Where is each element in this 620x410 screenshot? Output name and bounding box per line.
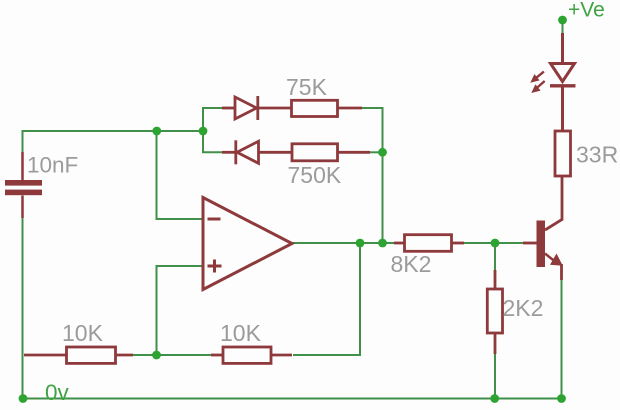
svg-text:8K2: 8K2 (391, 251, 432, 277)
node output left (356, 239, 365, 248)
svg-text:0v: 0v (45, 380, 70, 405)
resistor R 75K (292, 100, 363, 116)
resistor R 10K right (211, 347, 292, 363)
op-amp U1 (203, 198, 292, 290)
svg-text:+Ve: +Ve (568, 0, 605, 22)
wire 750K to feedback node (369, 151, 383, 153)
node 0v left (19, 394, 28, 403)
transistor Q1 (523, 177, 563, 280)
node 0v 2K2 (490, 394, 499, 403)
LED light arrows (530, 72, 544, 93)
node A (152, 127, 161, 136)
node output right (378, 239, 387, 248)
node 10K junction (152, 351, 161, 360)
wire emitter to 0v rail (561, 278, 563, 399)
wire between 10K resistors (131, 354, 213, 356)
node B (199, 127, 208, 136)
resistor R 750K (292, 144, 370, 161)
wire +Ve stub (562, 20, 564, 33)
wire node B up to diode D1 branch (203, 108, 224, 131)
resistor R 33R (555, 131, 571, 176)
wire 75K to right corner down to feedback node (361, 108, 383, 152)
wire top-left horizontal from C1 to node A (23, 130, 204, 132)
wire feedback node down to output node (382, 152, 384, 243)
wire op-amp output to 8K2 (292, 242, 396, 244)
wire capacitor bottom to 0v rail (22, 218, 24, 399)
capacitor C1 10nF (5, 152, 42, 218)
wire 0v bottom rail (23, 398, 564, 400)
LED D3 (550, 33, 576, 131)
wire op-amp non-inverting input left and down to 10K junction (157, 266, 204, 355)
node +Ve (558, 16, 567, 25)
svg-text:10K: 10K (62, 320, 104, 346)
diode D1 (222, 96, 292, 120)
wire node B down to diode D2 branch (203, 131, 224, 152)
resistor R 8K2 (394, 235, 464, 252)
diode D2 (222, 140, 292, 164)
svg-text:2K2: 2K2 (503, 295, 544, 321)
svg-text:750K: 750K (288, 162, 342, 188)
wire node A down to op-amp inverting input (157, 131, 204, 219)
svg-text:10nF: 10nF (27, 153, 78, 178)
svg-text:33R: 33R (576, 142, 618, 168)
resistor R 10K left (24, 347, 133, 363)
node 0v emitter (557, 394, 566, 403)
node base (491, 239, 500, 248)
node feedback (378, 148, 387, 157)
svg-text:75K: 75K (286, 74, 328, 100)
wire 2K2 bottom to 0v rail (494, 352, 496, 399)
wire left vertical top to capacitor (22, 130, 24, 152)
svg-text:10K: 10K (220, 320, 262, 346)
wire output node down and left to 10K (293, 243, 360, 355)
wire 8K2 to transistor base node (460, 242, 523, 244)
resistor R 2K2 (487, 270, 502, 354)
wire base node down to 2K2 (494, 243, 496, 272)
